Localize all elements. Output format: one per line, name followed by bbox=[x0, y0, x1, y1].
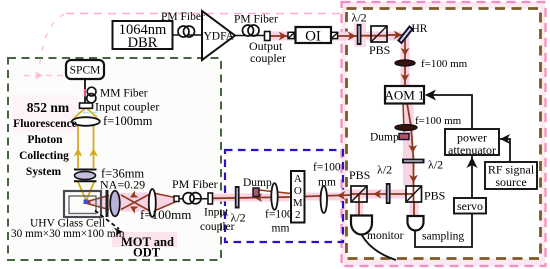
svg-text:f=100mm: f=100mm bbox=[140, 207, 191, 222]
pink beam glow: PBS row bbox=[341, 190, 407, 199]
box: 1064nm DBR laser bbox=[113, 21, 173, 49]
svg-text:mm: mm bbox=[318, 177, 336, 189]
dashed green box (852nm collection region) bbox=[8, 58, 221, 260]
svg-text:HR: HR bbox=[412, 23, 428, 35]
lens 3 f=100mm vertical bbox=[321, 186, 327, 213]
svg-text:OI: OI bbox=[305, 29, 321, 45]
svg-text:PM Fiber: PM Fiber bbox=[161, 11, 205, 23]
svg-text:DBR: DBR bbox=[128, 35, 158, 51]
svg-text:2: 2 bbox=[295, 209, 301, 221]
fiber coil 2 bbox=[243, 25, 254, 36]
lens f=100mm collection bbox=[72, 117, 100, 126]
input coupler 2 bbox=[208, 193, 213, 204]
MM fiber coil bbox=[87, 87, 96, 96]
waveplate lambda/2 D bbox=[235, 186, 240, 209]
PBS 2 bbox=[351, 186, 367, 202]
beam: AOM2 deflected to dump2 bbox=[259, 190, 291, 194]
wire: DBR to YDFA fiber bbox=[173, 34, 202, 36]
amplifier YDFA bbox=[202, 11, 235, 60]
optical isolator OI bbox=[296, 27, 332, 43]
detector sampling bbox=[408, 216, 424, 231]
waveplate lambda/2 B (horizontal) bbox=[402, 159, 425, 164]
dashed brown box (1064nm laser system region) bbox=[347, 9, 541, 259]
svg-text:O: O bbox=[294, 185, 302, 197]
svg-text:AOM 1: AOM 1 bbox=[384, 88, 424, 103]
aspheric lens body bbox=[110, 191, 120, 217]
svg-text:servo: servo bbox=[457, 199, 483, 213]
beam: AOM1 zero order to dump bbox=[403, 103, 404, 132]
svg-text:MM Fiber: MM Fiber bbox=[100, 88, 148, 100]
svg-text:Input coupler: Input coupler bbox=[95, 100, 159, 114]
fiber connector bbox=[174, 196, 179, 202]
svg-text:source: source bbox=[495, 175, 526, 189]
lens f=100mm (2) bbox=[395, 125, 417, 131]
svg-text:PBS: PBS bbox=[349, 168, 370, 182]
svg-text:852 nm: 852 nm bbox=[27, 100, 70, 115]
beam: OI to lambda/2 bbox=[337, 35, 357, 37]
beam: lens to AOM1 bbox=[404, 65, 406, 86]
wire: sampling to servo bbox=[415, 214, 472, 247]
svg-text:PBS: PBS bbox=[424, 189, 445, 203]
wire: YDFA to output coupler bbox=[233, 35, 265, 37]
detector monitor bbox=[351, 216, 372, 235]
pink beam glow: PBS2 to monitor bbox=[355, 202, 363, 215]
SPCM box bbox=[66, 60, 104, 79]
svg-text:PM Fiber: PM Fiber bbox=[172, 177, 218, 191]
box: servo bbox=[454, 198, 486, 214]
ghost pink dashed curve top-left bbox=[39, 14, 64, 68]
wire: attenuator to AOM1 bbox=[426, 95, 472, 129]
gold V from cell to f36 lens bbox=[78, 182, 86, 200]
pink beam glow: top chain bbox=[270, 32, 401, 41]
wire: monitor cable bbox=[359, 229, 396, 260]
beam: PBS2 left through lens3 to AOM2 bbox=[305, 195, 352, 197]
beam: PBS1 left to lambda/2 to PBS2 bbox=[351, 193, 414, 195]
ghost pink wash behind 852nm text bbox=[12, 95, 78, 133]
svg-text:Photon: Photon bbox=[27, 134, 63, 146]
mirror HR bbox=[399, 27, 413, 44]
beam dump 2 bbox=[253, 188, 259, 197]
beam: AOM2 left to lambda/2 to coupler bbox=[213, 197, 291, 198]
svg-text:Collecting: Collecting bbox=[19, 150, 69, 162]
ghost cyan dashed line bbox=[13, 112, 97, 114]
UHV glass cell outer bbox=[64, 191, 101, 217]
svg-text:Input: Input bbox=[204, 207, 229, 219]
lens 4 f=100mm vertical bbox=[271, 183, 277, 210]
dashed annotation arrow to MOT bbox=[95, 211, 119, 230]
dashed pink subsystem box (right, filled light pink) bbox=[342, 2, 546, 266]
ghost pink dashed arrow toward SPCM bbox=[24, 75, 63, 77]
pink beam glow: ODT cone left bbox=[87, 192, 179, 212]
pink wash behind MOT text bbox=[112, 232, 177, 247]
gold parallel rays up bbox=[77, 126, 79, 168]
wire: servo to attenuator bbox=[471, 156, 473, 198]
beam: fiber connector cone to lens5 bbox=[153, 193, 179, 198]
pink beam glow: PBS1 to sampling bbox=[410, 202, 419, 216]
aspheric lens plate bbox=[106, 190, 109, 217]
OI output connector bbox=[331, 32, 337, 38]
beam: PBS1 down to sampling bbox=[413, 202, 415, 217]
svg-text:sampling: sampling bbox=[422, 231, 464, 243]
beam: aspheric focus into cell bbox=[87, 196, 109, 202]
svg-text:f=100 mm: f=100 mm bbox=[421, 58, 468, 70]
svg-text:monitor: monitor bbox=[367, 230, 404, 242]
output coupler bbox=[265, 32, 271, 41]
dashed blue box (AOM2 region) bbox=[225, 150, 343, 242]
svg-text:Fluorescence: Fluorescence bbox=[13, 118, 77, 130]
wire: SPCM to MM fiber to coupler bbox=[84, 79, 86, 103]
lens f=100mm (1) bbox=[395, 60, 415, 66]
AOM 1 bbox=[385, 86, 424, 104]
svg-text:YDFA: YDFA bbox=[204, 31, 235, 43]
pink beam glow: AOM1 down to PBS1 bbox=[403, 103, 414, 186]
svg-text:NA=0.29: NA=0.29 bbox=[100, 178, 145, 192]
fiber coil 1 bbox=[178, 26, 189, 37]
atom cloud dot bbox=[84, 200, 89, 205]
wire: RF source to attenuator bbox=[500, 139, 510, 162]
svg-text:PBS: PBS bbox=[369, 43, 390, 57]
svg-text:ODT: ODT bbox=[133, 246, 161, 260]
beam: AOM1 first order to lens2 and PBS1 bbox=[407, 103, 414, 202]
box: RF signal source bbox=[485, 162, 537, 189]
gold converge to input coupler bbox=[75, 109, 86, 118]
waveplate lambda/2 C (vertical) bbox=[386, 183, 391, 204]
beam: PBS2 down to monitor bbox=[358, 195, 360, 216]
svg-text:λ/2: λ/2 bbox=[428, 158, 443, 172]
beam dump 1 bbox=[399, 134, 409, 140]
beam: output coupler to OI bbox=[270, 35, 289, 37]
input coupler 3 (horizontal) bbox=[80, 103, 93, 108]
beam: lens5 X crossing to aspheric bbox=[121, 195, 149, 210]
svg-text:λ/2: λ/2 bbox=[352, 11, 367, 25]
svg-text:SPCM: SPCM bbox=[70, 65, 101, 77]
ghost pink dashed line top bbox=[66, 13, 341, 15]
PBS 1 bbox=[406, 186, 422, 202]
svg-text:Dump: Dump bbox=[243, 177, 272, 189]
UHV glass cell inner bbox=[69, 196, 96, 214]
lens 5 f=100mm vertical left bbox=[149, 189, 156, 217]
svg-text:attenuator: attenuator bbox=[448, 143, 496, 157]
box: power attenuator bbox=[445, 129, 499, 155]
AOM 2 bbox=[291, 171, 305, 223]
pink beam glow: blue box beams bbox=[306, 193, 342, 201]
svg-text:System: System bbox=[26, 166, 62, 178]
beam: HR down to lens bbox=[404, 36, 406, 61]
svg-text:f=100: f=100 bbox=[265, 209, 293, 221]
svg-text:mm: mm bbox=[272, 223, 290, 235]
svg-text:PM Fiber: PM Fiber bbox=[234, 14, 278, 26]
svg-text:f=100: f=100 bbox=[313, 162, 341, 174]
svg-text:f=100mm: f=100mm bbox=[103, 114, 153, 128]
OI input connector bbox=[288, 32, 294, 38]
svg-text:A: A bbox=[294, 173, 302, 185]
PBS A bbox=[371, 26, 387, 42]
pink beam glow: HR down to AOM1 bbox=[401, 33, 410, 86]
beam: lambda/2 to PBS bbox=[361, 35, 387, 37]
svg-text:λ/2: λ/2 bbox=[377, 163, 392, 177]
waveplate lambda/2 A bbox=[357, 24, 362, 45]
svg-text:Dump: Dump bbox=[370, 132, 399, 144]
svg-text:coupler: coupler bbox=[200, 221, 235, 233]
svg-text:coupler: coupler bbox=[250, 51, 286, 65]
wire: fiber chain lower left bbox=[176, 198, 210, 200]
beam: PBS to HR bbox=[387, 34, 403, 36]
svg-text:30 mm×30 mm×100 mm: 30 mm×30 mm×100 mm bbox=[11, 228, 125, 240]
svg-text:M: M bbox=[293, 197, 303, 209]
fiber coil 3 bbox=[183, 193, 194, 204]
f=36mm lens assembly bbox=[74, 169, 97, 171]
svg-text:f=100 mm: f=100 mm bbox=[415, 115, 462, 127]
